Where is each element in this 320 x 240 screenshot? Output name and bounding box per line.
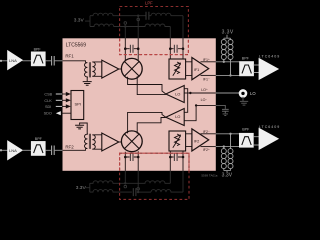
- node LO+: [189, 92, 191, 94]
- wire RF1 to balun T1: [63, 61, 86, 63]
- wire LO- termination: [216, 105, 226, 109]
- svg-text:LTC5569: LTC5569: [66, 43, 86, 49]
- svg-text:LTC6409: LTC6409: [259, 125, 279, 129]
- inductor L9 (IF1+ choke): [221, 40, 226, 45]
- svg-text:5569 TA01a: 5569 TA01a: [201, 173, 217, 177]
- mixer M2: [121, 131, 142, 152]
- inductor L5 (rail C choke): [90, 181, 126, 184]
- wire IF2- line to BPF: [216, 134, 240, 147]
- svg-text:LO⁺: LO⁺: [201, 88, 208, 92]
- svg-text:SPI: SPI: [75, 102, 81, 107]
- inductor L8 (rail D series): [151, 190, 183, 193]
- inductor L2 (rail A series): [151, 13, 183, 15]
- transformer T2 core: [89, 134, 90, 149]
- wire LNA1 to BPF1: [22, 60, 31, 62]
- IF1 internal box R1: [169, 59, 186, 79]
- transformer T1 secondary: [92, 62, 95, 76]
- filter BPF3: [240, 62, 254, 76]
- svg-text:3.3V: 3.3V: [74, 18, 85, 24]
- svg-text:LTC6409: LTC6409: [259, 54, 279, 58]
- capacitor C7 (RF1 dc block): [52, 56, 55, 66]
- wire A1 to mixer1: [119, 68, 122, 70]
- svg-text:BPF: BPF: [242, 128, 250, 132]
- wire mixer2 LO- stub: [137, 118, 166, 134]
- node G (IF2 in+): [169, 156, 172, 159]
- wire mixer2 out+ down: [124, 171, 126, 184]
- in-IC stubs of bottom LPF verticals: [125, 151, 183, 171]
- wire mixer2 out- down: [137, 171, 139, 192]
- wire mixer1 LO+ stub: [128, 77, 166, 94]
- RF2 input wire: [0, 149, 2, 151]
- wire IF2 box to amp: [186, 134, 192, 147]
- connector circle on mixer2 out- vertical: [137, 188, 140, 191]
- svg-text:BPF: BPF: [34, 48, 42, 52]
- node rail A junction: [137, 15, 139, 17]
- wire CSB: [56, 93, 62, 95]
- svg-text:IF2: IF2: [194, 140, 200, 144]
- inductor L10 (IF1- choke): [228, 40, 233, 45]
- capacitor C2 across mixer1 outputs: [125, 48, 138, 50]
- amplifier IF1: [192, 58, 209, 80]
- wire 3.3V feed bracket: [85, 16, 90, 27]
- filter BPF1: [31, 52, 45, 66]
- transformer T1 primary: [85, 63, 88, 82]
- amplifier A1 (RF1 buffer): [102, 60, 119, 78]
- inductor L12 (IF2- choke): [230, 134, 232, 149]
- wire SDO out: [61, 112, 72, 114]
- wire rail B down to IF1 box: [169, 27, 171, 39]
- wire LNA2 to BPF2: [22, 149, 31, 151]
- inductor L6 (rail C series): [125, 181, 170, 184]
- op-amp U3 LTC6409: [259, 128, 278, 149]
- inductor L1 (rail A choke): [90, 13, 138, 15]
- svg-text:IF2⁻: IF2⁻: [203, 130, 210, 134]
- capacitor C4 series in rail D: [137, 191, 151, 193]
- IC body U1 LTC5569: [63, 38, 216, 171]
- svg-text:SDI: SDI: [45, 105, 51, 109]
- wire mixer1 out- up: [137, 16, 139, 39]
- svg-text:CLK: CLK: [44, 99, 52, 103]
- amplifier A2 (RF2 buffer): [102, 133, 119, 151]
- wire IF2+ out: [201, 146, 216, 148]
- node A (mixer1 out+): [124, 47, 127, 50]
- svg-text:RF2: RF2: [65, 145, 74, 150]
- node H (IF2 in-): [182, 156, 185, 159]
- inductor L3 (rail B choke): [90, 24, 125, 27]
- capacitor C9 (LO- term): [222, 109, 229, 113]
- amplifier LO buffer 2: [166, 109, 184, 126]
- node rail D junction: [137, 191, 139, 193]
- wire LO+ tap: [184, 92, 190, 94]
- wire BPF1 to C7: [45, 60, 51, 62]
- wire BPF4 to U3: [253, 137, 259, 145]
- IF2 internal box R2: [169, 131, 186, 151]
- transformer T2 secondary: [92, 135, 95, 149]
- inductor L11 (IF2+ choke): [223, 147, 225, 149]
- svg-text:IF2⁺: IF2⁺: [203, 148, 210, 152]
- op-amp U2 LTC6409: [259, 58, 278, 79]
- svg-text:3.3V: 3.3V: [222, 30, 234, 36]
- node F (mixer2 out-): [137, 156, 140, 159]
- node LO-: [195, 104, 197, 106]
- svg-text:LO⁻: LO⁻: [201, 98, 208, 102]
- capacitor C3 across IF1 inputs: [170, 48, 183, 50]
- node IF1+ choke tap: [223, 61, 225, 63]
- wire rail C up to IF2 box: [169, 171, 171, 184]
- RF1 input wire: [0, 60, 2, 62]
- wire SDI: [56, 105, 62, 107]
- SPI block: [71, 91, 84, 120]
- svg-text:IF1⁺: IF1⁺: [203, 58, 210, 62]
- transformer T2 primary: [80, 123, 88, 149]
- resistor R2 (IF2 load): [175, 134, 180, 146]
- node rail B junction: [124, 25, 126, 27]
- capacitor C6 across IF2 inputs: [170, 156, 183, 158]
- in-IC stubs of LPF verticals: [125, 38, 183, 61]
- wire A2 to mixer2: [119, 141, 122, 143]
- capacitor C8 (RF2 dc block): [52, 146, 55, 156]
- wire C7 to RF1 pin: [54, 60, 62, 62]
- svg-text:LO: LO: [250, 91, 256, 96]
- connector circle on mixer1 out+ vertical: [124, 22, 127, 25]
- node IF2+ choke tap: [223, 145, 225, 147]
- wire T1 to amp A1: [92, 62, 101, 76]
- svg-text:SDO: SDO: [44, 112, 52, 116]
- ground C9: [223, 114, 228, 116]
- capacitor C5 across mixer2 outputs: [125, 156, 138, 158]
- bottom matching dashed box: [120, 153, 189, 199]
- connector circle on mixer1 out- vertical: [137, 18, 140, 21]
- wire 3.3V feed bracket bottom: [85, 183, 90, 192]
- inductor L7 (rail D choke): [90, 190, 132, 193]
- wire IF1 box to amp: [186, 62, 192, 76]
- wire 3.3V bar bottom right: [224, 169, 231, 172]
- node C (IF1 in+): [169, 47, 172, 50]
- LPF dashed box: [120, 7, 189, 55]
- svg-text:LNA: LNA: [9, 148, 17, 153]
- wire mixer2 LO+ stub: [128, 112, 166, 133]
- wire IF1- out: [201, 74, 216, 76]
- svg-text:3.3V: 3.3V: [76, 185, 87, 191]
- inductor L4 (rail B series): [125, 24, 170, 27]
- node B (mixer1 out-): [137, 47, 140, 50]
- wire IF1 lines to BPF: [216, 62, 240, 76]
- wire LO+ rail: [190, 92, 215, 94]
- svg-text:LO: LO: [175, 115, 180, 119]
- wire BPF2 to C8: [45, 149, 51, 151]
- svg-text:3.3V: 3.3V: [222, 173, 233, 179]
- wire LO- tap: [184, 105, 196, 120]
- wire IF1+ out: [201, 61, 216, 63]
- wire mixer1 out+ up: [124, 27, 126, 39]
- capacitor C1 series in rail A: [138, 15, 151, 17]
- svg-text:RF1: RF1: [65, 53, 74, 58]
- wire C8 to RF2 pin: [54, 149, 62, 151]
- filter BPF2: [31, 141, 45, 155]
- wire 3.3V bar top right: [224, 35, 231, 40]
- connector circle on mixer2 out+ vertical: [124, 185, 127, 188]
- svg-text:LPF: LPF: [145, 1, 153, 6]
- mixer M1: [121, 58, 142, 79]
- wire BPF3 to U2: [254, 65, 259, 73]
- ground T1: [83, 82, 92, 86]
- wire rail D up to IF2 box: [182, 171, 184, 192]
- node D (IF1 in-): [182, 47, 185, 50]
- filter BPF4: [239, 133, 253, 147]
- LO connector J1: [216, 92, 239, 94]
- wire mixer1 LO- stub: [137, 76, 166, 94]
- amplifier LNA2: [8, 141, 23, 160]
- svg-text:IF1⁻: IF1⁻: [203, 77, 210, 81]
- node IF1- choke tap: [229, 74, 231, 76]
- wire IF2- out: [201, 133, 216, 135]
- svg-text:CSB: CSB: [44, 93, 52, 97]
- resistor R1 (IF1 load): [175, 62, 180, 74]
- wire CLK: [56, 99, 62, 101]
- ground J1: [240, 97, 248, 105]
- wire LO buffer cross-couple: [184, 89, 188, 113]
- ground T2: [75, 125, 84, 129]
- node IF2- choke tap: [229, 133, 231, 135]
- wire RF2 to balun T2: [63, 149, 86, 151]
- transformer T1 core: [89, 62, 90, 77]
- svg-text:IF1: IF1: [194, 68, 200, 72]
- node E (mixer2 out+): [124, 156, 127, 159]
- svg-text:BPF: BPF: [242, 56, 250, 60]
- wire rail A down to IF1 box: [182, 16, 184, 39]
- wire T2 to amp A2: [92, 135, 101, 149]
- wire LO- rail: [196, 104, 216, 106]
- svg-text:LO: LO: [175, 92, 180, 96]
- amplifier IF2: [192, 129, 209, 151]
- amplifier LNA1: [8, 51, 23, 70]
- svg-text:BPF: BPF: [35, 137, 43, 141]
- amplifier LO buffer 1: [166, 86, 184, 103]
- node rail C junction: [124, 182, 126, 184]
- svg-text:LNA: LNA: [9, 58, 17, 63]
